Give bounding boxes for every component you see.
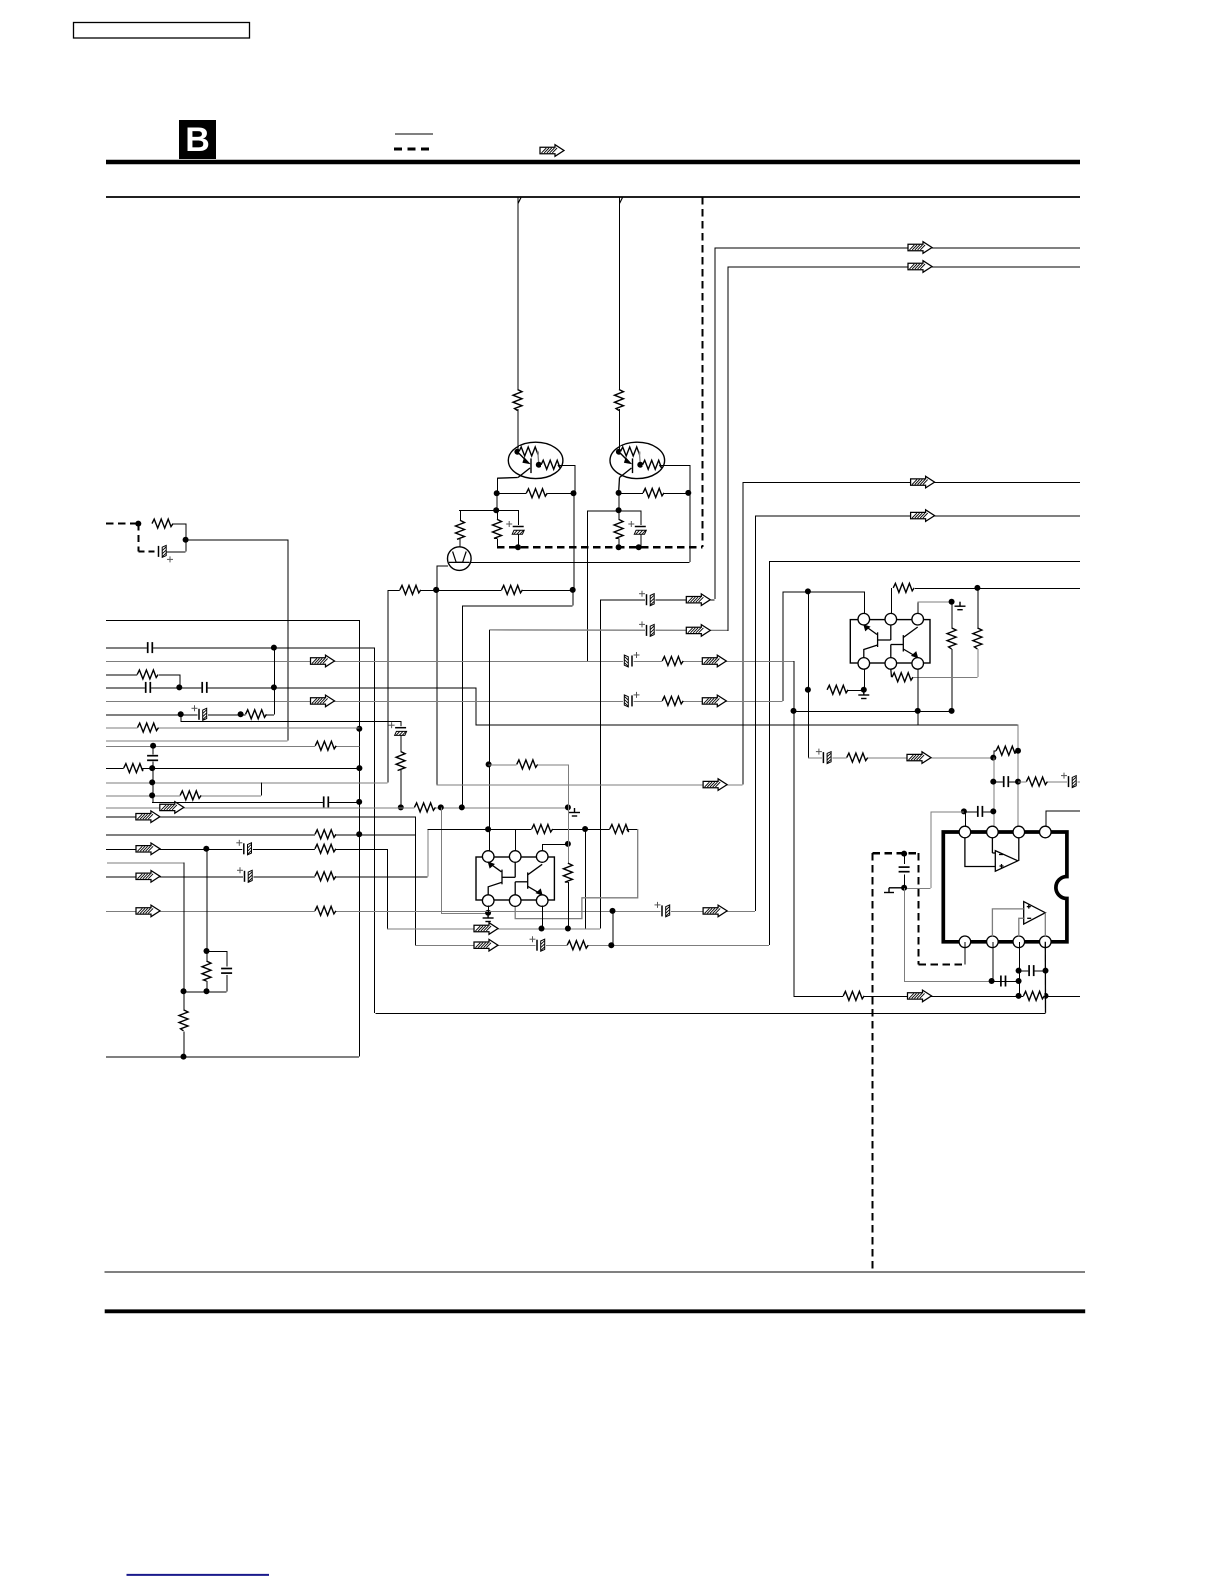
wire — [567, 882, 569, 929]
wire: vertical x585 — [585, 829, 587, 929]
wire: vertical x183 — [183, 863, 185, 1010]
wire — [497, 510, 499, 519]
wire: Q1 left lead — [437, 565, 448, 567]
node — [1043, 993, 1049, 999]
wire: vertical x574 — [574, 465, 576, 493]
wire row y817 — [106, 816, 415, 818]
wire — [400, 770, 402, 808]
wire — [517, 409, 519, 452]
wire row y674 — [106, 674, 148, 676]
node — [150, 743, 156, 749]
wire: stub x612 — [612, 911, 614, 945]
resistor (to row y1057) — [178, 1010, 189, 1031]
resistor (row y701) — [662, 695, 683, 706]
wire: vertical x386 — [386, 849, 388, 929]
node — [135, 521, 141, 527]
resistor (U2 right 1) — [946, 628, 957, 649]
wire row y928 — [387, 928, 600, 930]
node — [433, 587, 439, 593]
bottom rule thick — [105, 1309, 1085, 1313]
resistor (Q-A network vertical) — [492, 519, 503, 538]
node — [989, 978, 995, 984]
node — [204, 988, 210, 994]
wire: pin3 lead — [542, 844, 544, 851]
wire — [226, 975, 228, 991]
wire row y591 — [387, 589, 572, 591]
wire: jog row y510 — [459, 510, 518, 512]
node — [990, 779, 996, 785]
wire row y996 — [794, 995, 1081, 997]
wire: vertical x807 — [807, 591, 809, 757]
off-page arrow row 2 — [908, 261, 932, 273]
capacitor (row y687 a) — [145, 681, 151, 694]
wire — [964, 811, 993, 813]
footer blue underline — [127, 1574, 270, 1576]
wire: pin2 lead — [515, 829, 517, 851]
wire — [618, 493, 620, 519]
wire: vertical x359 — [359, 620, 361, 1057]
dashed wire (vertical) — [137, 524, 139, 552]
IC U2 (dual transistor pack, 6 pins) — [850, 620, 930, 663]
wire row y661 — [106, 661, 794, 663]
wire: off-page row y561 — [769, 560, 1080, 562]
node — [949, 599, 955, 605]
ground stub (dashed net) — [884, 888, 904, 893]
node — [582, 826, 588, 832]
wire — [497, 493, 527, 495]
node — [356, 765, 362, 771]
wire — [538, 452, 539, 465]
wire: vertical x374 — [374, 648, 376, 1013]
wire — [904, 887, 931, 889]
node — [271, 684, 277, 690]
electrolytic cap (row y757) — [816, 749, 833, 765]
wire row y746 — [106, 745, 359, 747]
wire (R||C top jog) — [207, 951, 227, 953]
resistor (Q-B internal base) — [621, 446, 640, 457]
resistor (U1 top branch) — [517, 759, 538, 770]
wire row y588 — [915, 587, 1080, 589]
electrolytic cap (input network) — [157, 544, 173, 562]
electrolytic cap (row y911) — [655, 902, 672, 918]
off-page arrow (row y996) — [908, 990, 932, 1002]
node — [685, 490, 691, 496]
transistor Q1 (circle package) — [448, 547, 472, 571]
wire: vertical x755 — [755, 516, 757, 911]
U2 pins top — [858, 613, 870, 625]
resistor (row y996 left) — [843, 990, 864, 1001]
wire row y605 — [462, 605, 573, 607]
wire — [619, 492, 643, 494]
wire: vertical x475 — [475, 687, 477, 724]
wire: pin8 drop — [1044, 942, 1046, 1013]
wire: Q-A collector out — [497, 477, 518, 480]
electrolytic cap (Q-A network) — [506, 521, 525, 536]
resistor (row y834) — [315, 829, 336, 840]
wire: vertical x769 — [769, 561, 771, 945]
wire row y727 — [106, 727, 359, 729]
capacitor (row y802) — [323, 795, 329, 808]
resistor (row y849) — [315, 843, 336, 854]
node — [238, 711, 244, 717]
legend dashed line — [394, 148, 434, 151]
node — [990, 755, 996, 761]
electrolytic cap (row y661) — [623, 652, 640, 668]
resistor (row y876) — [315, 871, 336, 882]
title box top-left — [74, 23, 250, 39]
wire row y945 — [415, 945, 769, 947]
off-page arrow y482 — [911, 476, 935, 488]
off-page arrow (row y661 left) — [311, 655, 335, 667]
node — [1015, 779, 1021, 785]
capacitor (R||C) — [220, 968, 233, 974]
ground (row y690) — [858, 691, 869, 699]
off-page arrow (row y817) — [136, 811, 160, 823]
electrolytic cap (row y945) — [530, 936, 547, 952]
node — [570, 587, 576, 593]
resistor (above U1 left) — [532, 824, 553, 835]
resistor (input network) — [152, 518, 173, 529]
wire row y1013 — [375, 1012, 1045, 1014]
wire row y724 — [475, 724, 1017, 726]
node — [1015, 748, 1021, 754]
node — [861, 687, 867, 693]
wire — [640, 510, 642, 526]
resistor (row y807) — [414, 802, 435, 813]
second rule — [106, 196, 1080, 198]
node — [181, 1054, 187, 1060]
wire row y829 — [427, 829, 531, 831]
node — [486, 761, 492, 767]
wire row y721 — [181, 721, 401, 723]
node — [616, 490, 622, 496]
off-page arrow (row y661 right) — [702, 655, 726, 667]
dashed net long left edge — [872, 853, 874, 1271]
resistor (U2 collector load) — [893, 582, 914, 593]
wire: vertical x689 — [689, 465, 691, 493]
wire row y981 — [904, 981, 992, 983]
wire row y795 — [106, 795, 261, 797]
resistor (row y750) — [996, 745, 1015, 756]
resistor (row y591 right) — [502, 584, 523, 595]
wire — [518, 510, 520, 526]
U3 pins top — [959, 826, 971, 838]
capacitor (vertical x152) — [146, 755, 159, 761]
wire — [553, 829, 610, 831]
wire — [547, 493, 573, 495]
wire — [904, 854, 906, 864]
electrolytic cap (row y781) — [1061, 773, 1078, 789]
capacitor (row y647) — [147, 641, 153, 654]
wire row y781 right — [1018, 781, 1080, 783]
capacitor (row y781) — [1003, 775, 1009, 788]
wire — [992, 981, 1019, 983]
dashed bus wire (vertical, from top rule) — [701, 197, 703, 547]
node — [990, 808, 996, 814]
wire: pin3 top lead — [917, 602, 919, 615]
node — [356, 799, 362, 805]
electrolytic cap (row y701) — [623, 692, 640, 708]
wire — [206, 981, 208, 991]
node — [901, 885, 907, 891]
wire: pin2 top lead — [890, 588, 892, 614]
wire: drop to R above Q-pack B — [619, 197, 621, 391]
node — [901, 851, 907, 857]
dashed net bottom edge — [918, 963, 964, 965]
IC U3 (dual op-amp, thick outline) — [943, 832, 1067, 942]
resistor (row y746) — [315, 740, 336, 751]
node — [1016, 993, 1022, 999]
node — [485, 910, 491, 916]
electrolytic cap (row y599) — [639, 591, 656, 607]
wire row y811 — [931, 811, 964, 813]
wire — [183, 1032, 185, 1057]
wire — [918, 601, 952, 603]
wire — [977, 588, 979, 628]
wire — [542, 843, 568, 845]
wire: vertical x727 — [727, 267, 729, 631]
resistor (row y768) — [124, 763, 143, 774]
wire: vertical x742 — [742, 482, 744, 784]
wire — [489, 764, 517, 766]
resistor R (above Q-pack B) — [614, 390, 625, 411]
off-page arrow (row y928) — [474, 923, 498, 935]
wire — [497, 538, 499, 547]
wire: vertical x427 — [427, 829, 429, 876]
node — [610, 908, 616, 914]
wire: vertical x600 — [599, 600, 601, 929]
off-page arrow (row y757) — [907, 752, 931, 764]
wire: vertical x415 — [415, 817, 417, 946]
off-page arrow (row y911 left) — [136, 905, 160, 917]
resistor (row y591 left) — [400, 584, 421, 595]
wire: vertical x904 — [904, 888, 906, 981]
wire: vertical x287 — [287, 540, 289, 741]
wire — [914, 677, 978, 679]
wire row y782 — [106, 782, 388, 784]
wire — [558, 464, 575, 466]
wire — [152, 762, 154, 802]
U3 pins bottom — [959, 936, 971, 948]
node — [149, 792, 155, 798]
wire — [689, 493, 691, 562]
wire — [1015, 750, 1018, 752]
off-page arrow (row y701 right) — [702, 695, 726, 707]
off-page arrow row 1 — [908, 242, 932, 254]
wire — [459, 538, 461, 547]
dashed bus wire (horizontal y547) — [497, 546, 702, 548]
node — [1043, 968, 1049, 974]
U1 internal transistors — [488, 862, 542, 895]
wire row y784 — [437, 784, 743, 786]
section label B — [179, 120, 216, 159]
node on dashed bus — [636, 544, 642, 550]
resistor (row y757) — [847, 752, 868, 763]
resistor (U2 emitter) — [892, 672, 913, 683]
node — [438, 804, 444, 810]
capacitor (row y687 b) — [201, 681, 207, 694]
wire — [951, 649, 953, 711]
wire — [627, 829, 638, 831]
dashed wire stub — [138, 550, 155, 552]
wire: pin1 lead — [964, 811, 966, 832]
svg-text:B: B — [185, 121, 210, 159]
off-page arrow (row y849) — [136, 843, 160, 855]
node: Q-B base-res junction — [616, 449, 622, 455]
node — [1016, 978, 1022, 984]
legend solid line — [395, 133, 433, 135]
U2 pins bottom — [858, 658, 870, 670]
resistor R (above Q-pack A) — [512, 390, 523, 411]
wire — [267, 714, 274, 716]
electrolytic cap (vertical, x400) — [389, 722, 408, 737]
wire — [660, 464, 690, 466]
node — [565, 804, 571, 810]
wire: vertical x440 — [440, 807, 442, 912]
ground (below U1 pin4) — [483, 914, 494, 922]
wire row y810 — [1045, 810, 1080, 812]
wire row y876 — [106, 876, 427, 878]
wire — [890, 669, 893, 677]
node — [539, 926, 545, 932]
wire: off-page row y482 — [743, 482, 1080, 484]
wire: vertical x489 — [489, 630, 491, 829]
node — [433, 587, 439, 593]
wire: pin6 drop — [992, 942, 994, 981]
node: Q-B emitter junction — [637, 462, 643, 468]
wire: vertical x793 — [793, 661, 795, 996]
transistor pack Q-B (oval) — [610, 442, 665, 478]
resistor (row y781) — [1026, 776, 1047, 787]
wire — [951, 602, 953, 628]
wire — [226, 951, 228, 966]
wire row y630 — [489, 629, 727, 632]
resistor (row y996 right) — [1023, 990, 1044, 1001]
resistor (row y727) — [138, 722, 159, 733]
node on dashed bus — [515, 544, 521, 550]
wire row y1057 — [106, 1056, 359, 1058]
wire jog — [993, 751, 995, 758]
wire — [639, 452, 640, 465]
resistor (U2 right 2) — [972, 628, 983, 649]
bottom rule thin — [105, 1271, 1085, 1273]
electrolytic cap (row y876) — [237, 867, 254, 883]
wire: pin7 drop — [1018, 942, 1020, 996]
wire row y834 — [106, 834, 415, 836]
resistor (right of U1) — [562, 863, 573, 882]
wire: drop to R above Q-pack A — [517, 197, 519, 391]
node — [961, 808, 967, 814]
wire: vertical x993 (pin2 lead) — [993, 758, 995, 832]
wire: vertical x387 — [387, 590, 389, 783]
node — [616, 507, 622, 513]
wire — [441, 912, 488, 914]
wire — [640, 535, 642, 548]
resistor (vertical x400) — [395, 752, 406, 771]
wire: off-page row y515 — [755, 515, 1080, 517]
wire — [167, 551, 186, 553]
wire — [993, 750, 996, 752]
wire — [993, 781, 1018, 783]
dashed input wire y523 — [106, 523, 140, 525]
wire row y714 — [106, 714, 274, 716]
wire: Q1 output row y562 — [471, 562, 689, 564]
node — [176, 684, 182, 690]
wire: pin4 drop — [863, 669, 865, 690]
node — [494, 490, 500, 496]
wire row y701 — [106, 700, 783, 702]
node — [805, 687, 811, 693]
capacitor (row y811) — [977, 805, 983, 818]
resistor (Q-B network vertical) — [613, 519, 624, 538]
electrolytic cap (row y714) — [192, 705, 209, 721]
node — [356, 831, 362, 837]
off-page arrow (row y876) — [136, 871, 160, 883]
wire row y862 — [107, 862, 184, 864]
wire — [159, 674, 179, 676]
wire — [460, 510, 462, 520]
resistor (row y795) — [180, 790, 201, 801]
wire — [904, 875, 906, 888]
resistor (Q-A internal base) — [519, 446, 538, 457]
wire — [400, 736, 402, 752]
off-page arrow (row y630) — [686, 625, 710, 637]
node — [493, 507, 499, 513]
transistor Q-B (internal) — [619, 452, 633, 478]
node — [271, 645, 277, 651]
node — [398, 804, 404, 810]
wire: vertical x152 — [152, 746, 154, 755]
node: Q-A base-res junction — [514, 449, 520, 455]
wire — [847, 689, 863, 691]
wire row y599 — [600, 599, 714, 601]
U1 pins bottom — [482, 895, 494, 907]
wire: off-page row 1 — [714, 247, 1080, 249]
node — [805, 588, 811, 594]
wire — [664, 492, 688, 494]
node — [203, 846, 209, 852]
op-amp A (U3) — [965, 838, 1019, 872]
capacitor (dashed net) — [898, 866, 911, 872]
node — [571, 490, 577, 496]
node — [204, 948, 210, 954]
resistor (above U1 right) — [610, 824, 629, 835]
wire row y540 — [186, 539, 288, 541]
transistor pack Q-A (oval) — [508, 442, 563, 478]
wire: vertical x461 — [461, 606, 463, 807]
wire: vertical x400 — [400, 721, 402, 727]
node — [1016, 968, 1022, 974]
node: Q-A emitter junction — [536, 462, 542, 468]
wire row y740 — [106, 740, 287, 742]
transistor Q-A (internal) — [517, 452, 531, 478]
electrolytic cap (Q-B network) — [628, 521, 647, 536]
wire: pin4 drop — [488, 906, 490, 913]
node on dashed bus — [616, 544, 622, 550]
node — [485, 826, 491, 832]
node — [565, 926, 571, 932]
off-page arrow y515 — [911, 510, 935, 522]
dashed net (box near U3) — [873, 852, 919, 854]
off-page arrow (row y807) — [160, 802, 184, 814]
wire: vertical x930 — [930, 811, 932, 887]
wire: pin6 drop — [917, 669, 919, 725]
node — [608, 942, 614, 948]
wire row y768 — [106, 768, 359, 770]
wire: off-page row 2 — [728, 266, 1081, 268]
resistor (bias, row y690) — [827, 684, 848, 695]
wire — [618, 538, 620, 547]
